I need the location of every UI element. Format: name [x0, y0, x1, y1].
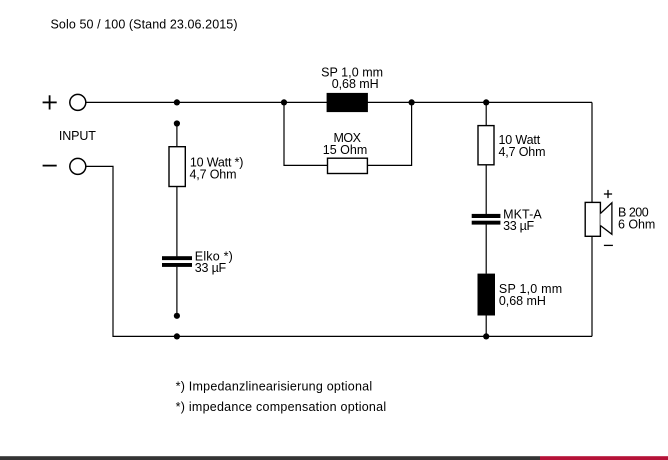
svg-text:4,7 Ohm: 4,7 Ohm [190, 167, 237, 181]
svg-text:6 Ohm: 6 Ohm [618, 218, 655, 232]
svg-text:0,68 mH: 0,68 mH [499, 294, 546, 308]
svg-text:Solo 50 / 100 (Stand 23.06.201: Solo 50 / 100 (Stand 23.06.2015) [51, 18, 238, 32]
svg-text:15 Ohm: 15 Ohm [323, 143, 368, 157]
svg-text:4,7 Ohm: 4,7 Ohm [499, 145, 546, 159]
svg-text:INPUT: INPUT [59, 129, 96, 143]
svg-text:0,68 mH: 0,68 mH [332, 77, 379, 91]
svg-text:33 µF: 33 µF [195, 261, 227, 275]
svg-text:*) Impedanzlinearisierung opti: *) Impedanzlinearisierung optional [176, 379, 373, 393]
svg-text:33 µF: 33 µF [503, 219, 534, 233]
svg-text:*) impedance compensation opti: *) impedance compensation optional [176, 400, 387, 414]
